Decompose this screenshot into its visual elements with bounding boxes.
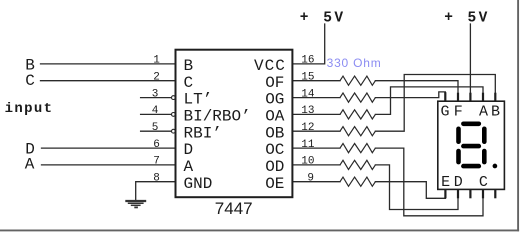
svg-text:5V: 5V bbox=[323, 11, 345, 27]
svg-text:D: D bbox=[184, 141, 194, 159]
svg-text:OA: OA bbox=[265, 108, 285, 126]
wire pin 3 stub bbox=[141, 97, 172, 99]
svg-text:G: G bbox=[440, 103, 449, 120]
display pin stub G top bbox=[444, 92, 446, 101]
segment C bbox=[482, 149, 487, 165]
display pin stub anode top bbox=[469, 93, 471, 102]
svg-text:13: 13 bbox=[301, 105, 314, 117]
svg-text:C: C bbox=[184, 74, 194, 92]
svg-text:B: B bbox=[491, 103, 500, 120]
segment G bbox=[461, 144, 481, 149]
svg-text:LT’: LT’ bbox=[184, 91, 213, 109]
svg-text:C: C bbox=[479, 174, 488, 191]
svg-text:C: C bbox=[25, 72, 35, 90]
wire pin 5 stub bbox=[141, 130, 172, 132]
ground bbox=[125, 201, 146, 207]
display pin stub A top bbox=[482, 93, 484, 102]
display pin stub C bottom bbox=[482, 189, 484, 198]
svg-text:7447: 7447 bbox=[215, 199, 253, 218]
svg-text:A: A bbox=[184, 158, 194, 176]
wire OF to segment F bbox=[375, 81, 458, 93]
display pin stub nc bottom bbox=[469, 189, 471, 198]
svg-text:B: B bbox=[184, 57, 194, 75]
wire C input to pin 2 bbox=[41, 80, 176, 82]
wire pin 4 stub bbox=[141, 113, 172, 115]
inverting bubble pin 3 bbox=[172, 96, 176, 100]
wire OE to segment E bbox=[375, 182, 445, 199]
svg-text:5V: 5V bbox=[468, 11, 490, 27]
svg-text:OC: OC bbox=[265, 141, 284, 159]
resistor R5 330 Ohm (pin 11, segment c) bbox=[340, 144, 375, 153]
svg-text:2: 2 bbox=[153, 71, 160, 83]
svg-text:7: 7 bbox=[153, 156, 160, 168]
svg-text:15: 15 bbox=[301, 71, 314, 83]
wire OB to segment B bbox=[375, 75, 495, 132]
svg-text:6: 6 bbox=[153, 139, 160, 151]
svg-text:+: + bbox=[300, 10, 309, 26]
svg-text:5: 5 bbox=[152, 122, 159, 134]
svg-text:F: F bbox=[454, 103, 463, 120]
svg-text:D: D bbox=[454, 174, 463, 191]
resistor R2 330 Ohm (pin 14, segment g) bbox=[340, 93, 375, 102]
svg-text:A: A bbox=[25, 156, 35, 174]
resistor R4 330 Ohm (pin 12, segment b) bbox=[340, 127, 375, 136]
display pin stub E bottom bbox=[444, 189, 446, 198]
svg-text:+: + bbox=[444, 10, 453, 26]
wire OG to segment G bbox=[375, 92, 445, 98]
segment F bbox=[456, 127, 461, 145]
svg-text:RBI’: RBI’ bbox=[184, 124, 222, 142]
svg-text:8: 8 bbox=[153, 172, 160, 184]
svg-text:BI/RBO’: BI/RBO’ bbox=[184, 108, 251, 126]
wire pin 14 lead bbox=[292, 97, 340, 99]
svg-text:330 Ohm: 330 Ohm bbox=[327, 56, 382, 70]
wire OD to segment D bbox=[375, 165, 458, 210]
svg-text:12: 12 bbox=[301, 122, 314, 134]
svg-text:OB: OB bbox=[265, 124, 284, 142]
svg-text:VCC: VCC bbox=[254, 57, 286, 75]
7-segment display DS1 bbox=[438, 101, 505, 189]
segment D bbox=[461, 164, 481, 169]
display pin stub F top bbox=[457, 93, 459, 102]
svg-text:1: 1 bbox=[153, 55, 160, 67]
display pin stub D bottom bbox=[457, 189, 459, 198]
wire pin 9 lead bbox=[292, 181, 340, 183]
svg-text:10: 10 bbox=[301, 156, 314, 168]
resistor R3 330 Ohm (pin 13, segment a) bbox=[340, 110, 375, 119]
svg-text:GND: GND bbox=[184, 175, 213, 193]
wire pin 8 to ground bbox=[136, 182, 176, 201]
svg-text:14: 14 bbox=[301, 88, 315, 100]
wire OC to segment C bbox=[375, 148, 483, 216]
svg-text:A: A bbox=[479, 103, 488, 120]
svg-text:OD: OD bbox=[265, 158, 284, 176]
wire +5V to display common anode bbox=[469, 24, 471, 101]
svg-text:OG: OG bbox=[265, 91, 284, 109]
wire pin 10 lead bbox=[292, 164, 340, 166]
wire D input to pin 6 bbox=[42, 147, 176, 149]
wire pin 11 lead bbox=[292, 147, 340, 149]
wire A input to pin 7 bbox=[42, 164, 176, 166]
wire pin 16 to +5V bbox=[292, 24, 324, 64]
resistor R6 330 Ohm (pin 10, segment d) bbox=[340, 160, 375, 169]
svg-text:11: 11 bbox=[301, 139, 315, 151]
inverting bubble pin 5 bbox=[172, 129, 176, 133]
resistor R1 330 Ohm (pin 15, segment f) bbox=[340, 76, 375, 85]
svg-text:3: 3 bbox=[152, 88, 159, 100]
svg-text:9: 9 bbox=[307, 172, 314, 184]
resistor R7 330 Ohm (pin 9, segment e) bbox=[340, 177, 375, 186]
segment E bbox=[456, 149, 461, 165]
svg-text:OE: OE bbox=[265, 175, 284, 193]
wire B input to pin 1 bbox=[41, 63, 176, 65]
7447 decoder chip U1 bbox=[176, 50, 293, 198]
inverting bubble pin 4 bbox=[172, 113, 176, 117]
svg-text:4: 4 bbox=[152, 105, 159, 117]
svg-text:E: E bbox=[441, 174, 450, 191]
svg-text:16: 16 bbox=[301, 55, 314, 67]
segment A bbox=[461, 122, 481, 127]
segment B bbox=[482, 127, 487, 145]
wire pin 12 lead bbox=[292, 130, 340, 132]
display pin stub B top bbox=[494, 93, 496, 102]
display pin stub dp bottom bbox=[494, 189, 496, 198]
decimal point bbox=[493, 164, 498, 169]
svg-text:OF: OF bbox=[265, 74, 284, 92]
wire pin 13 lead bbox=[292, 113, 340, 115]
svg-text:input: input bbox=[5, 101, 54, 117]
wire pin 15 lead bbox=[292, 80, 340, 82]
wire OA to segment A bbox=[375, 87, 483, 115]
